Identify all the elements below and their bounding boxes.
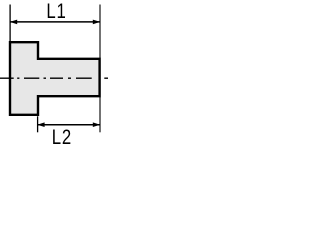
svg-text:L2: L2 bbox=[52, 126, 72, 149]
dimension L1 arrow left bbox=[10, 20, 17, 25]
dimension L1 line bbox=[10, 21, 100, 23]
dimension L1 arrow right bbox=[93, 20, 100, 25]
dimension L2 arrow left bbox=[37, 122, 44, 127]
dimension L1 extension line right bbox=[99, 5, 101, 59]
svg-text:L1: L1 bbox=[46, 0, 66, 23]
dimension L2 extension line left bbox=[37, 116, 39, 132]
centerline (dash-dot axis) bbox=[0, 77, 108, 79]
dimension L1 extension line left bbox=[9, 5, 11, 42]
dimension L2 arrow right bbox=[93, 122, 100, 127]
part outline: stepped plug body bbox=[10, 42, 100, 115]
dimension L2 extension line right bbox=[99, 97, 101, 132]
dimension L2 line bbox=[38, 124, 100, 126]
